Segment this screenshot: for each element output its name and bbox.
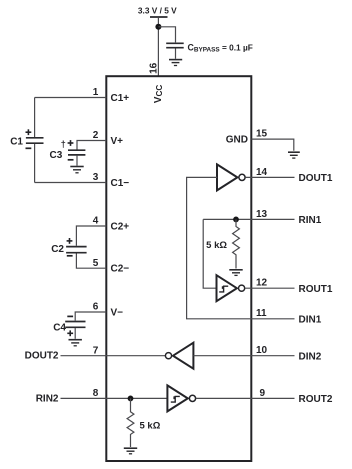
capacitor C4 (pin6 V- to ground) <box>65 322 85 339</box>
svg-text:C1+: C1+ <box>111 93 130 104</box>
wire U2 output to pin 12 ROUT1 <box>245 287 295 289</box>
pin 2 number <box>93 130 99 141</box>
ground (R1) <box>229 270 242 276</box>
driver T2 (DIN2 to DOUT2) <box>165 343 193 369</box>
svg-text:†: † <box>61 139 66 149</box>
pin 12 number <box>256 278 268 289</box>
C4 label <box>53 323 66 334</box>
C2 plus polarity <box>67 238 73 244</box>
junction dot on pin 13 wire <box>233 217 239 223</box>
pin name C1+ <box>111 93 130 104</box>
C3 label with dagger footnote <box>50 139 66 161</box>
svg-text:16: 16 <box>148 62 159 74</box>
svg-text:DIN2: DIN2 <box>299 351 322 362</box>
svg-text:5 kΩ: 5 kΩ <box>206 240 227 251</box>
svg-text:GND: GND <box>226 135 248 146</box>
wire T1 input from DIN1 (pin 11) <box>187 177 295 318</box>
pin 5 wire C2- <box>76 253 106 268</box>
svg-text:C3: C3 <box>50 150 63 161</box>
node DOUT1 label <box>299 173 333 184</box>
receiver U2 (RIN1 to ROUT1) <box>217 275 245 301</box>
svg-text:DIN1: DIN1 <box>299 315 322 326</box>
driver T1 (DIN1 to DOUT1) <box>217 164 245 190</box>
svg-text:15: 15 <box>256 129 268 140</box>
pin name V- <box>111 308 124 319</box>
svg-text:11: 11 <box>256 308 267 319</box>
R1 value label 5 kOhm <box>206 240 227 251</box>
svg-text:DOUT1: DOUT1 <box>299 173 333 184</box>
svg-text:C2−: C2− <box>111 264 130 275</box>
pin 7 wire DOUT2 <box>61 355 166 357</box>
svg-text:VCC: VCC <box>153 85 164 104</box>
svg-text:3.3 V / 5 V: 3.3 V / 5 V <box>138 5 177 15</box>
capacitor C2 (pin4 to pin5) <box>66 247 87 253</box>
svg-text:7: 7 <box>93 345 99 356</box>
svg-text:5 kΩ: 5 kΩ <box>140 421 161 432</box>
svg-text:ROUT2: ROUT2 <box>299 394 333 405</box>
pin name V+ <box>111 136 124 147</box>
pin 5 number <box>93 258 99 269</box>
pin 4 wire C2+ <box>76 226 106 246</box>
pin name VCC <box>153 85 164 104</box>
junction dot on pin 8 wire <box>128 396 134 402</box>
node VCC supply label 3.3 V / 5 V <box>138 5 177 15</box>
receiver U3 (RIN2 to ROUT2) <box>167 385 195 411</box>
svg-text:C2+: C2+ <box>111 222 130 233</box>
wire T2 input from pin 10 DIN2 <box>193 355 294 357</box>
C1 label <box>10 137 23 148</box>
C1 plus polarity <box>26 129 32 135</box>
C4 minus polarity (top) <box>67 315 73 317</box>
pin 6 number <box>93 302 99 313</box>
ground (bypass capacitor) <box>169 60 182 66</box>
pin 11 number <box>256 308 267 319</box>
pin 13 wire RIN1 <box>203 218 294 220</box>
svg-text:3: 3 <box>93 172 99 183</box>
svg-text:RIN2: RIN2 <box>36 394 59 405</box>
svg-text:1: 1 <box>93 87 99 98</box>
C1 minus polarity <box>26 147 32 149</box>
pin 3 number <box>93 172 99 183</box>
wire T1 output to pin 14 and DOUT1 <box>245 176 294 178</box>
wire junction to bypass capacitor <box>158 27 175 43</box>
power rail bar <box>150 16 168 18</box>
IC U1 body <box>106 76 251 461</box>
C3 plus polarity <box>68 140 74 146</box>
pin 10 number <box>256 345 268 356</box>
pin 9 number <box>260 388 266 399</box>
svg-text:10: 10 <box>256 345 268 356</box>
pin name C1- <box>111 178 130 189</box>
pin 8 wire RIN2 <box>61 397 168 399</box>
node RIN2 label <box>36 394 59 405</box>
pin 8 number <box>93 388 99 399</box>
node DOUT2 label <box>25 350 59 361</box>
svg-text:RIN1: RIN1 <box>299 215 322 226</box>
ground (pin 15) <box>288 152 300 158</box>
junction dot on VCC wire <box>155 24 161 30</box>
svg-text:C4: C4 <box>53 323 66 334</box>
pin 4 number <box>93 216 99 227</box>
pin 16 number label <box>148 62 159 74</box>
svg-text:4: 4 <box>93 216 99 227</box>
pin 14 number <box>256 167 268 178</box>
svg-text:9: 9 <box>260 388 266 399</box>
pin 15 number <box>256 129 268 140</box>
C3 minus polarity <box>68 159 74 161</box>
value label CBYPASS = 0.1 uF <box>188 42 253 53</box>
wire VCC rail to pin 16 <box>157 18 159 76</box>
svg-text:13: 13 <box>256 209 268 220</box>
resistor R1 5 kOhm <box>233 219 240 268</box>
node RIN1 label <box>299 215 322 226</box>
svg-text:8: 8 <box>93 388 99 399</box>
C2 minus polarity <box>67 255 73 257</box>
svg-text:12: 12 <box>256 278 268 289</box>
node ROUT1 label <box>299 284 333 295</box>
pin 13 number <box>256 209 268 220</box>
pin name C2+ <box>111 222 130 233</box>
R2 value label 5 kOhm <box>140 421 161 432</box>
svg-text:C1: C1 <box>10 137 23 148</box>
svg-text:ROUT1: ROUT1 <box>299 284 333 295</box>
pin name C2- <box>111 264 130 275</box>
wire U3 output to pin 9 ROUT2 <box>196 397 295 399</box>
hysteresis symbol (U3) <box>171 396 180 402</box>
resistor R2 5 kOhm <box>127 398 134 447</box>
ground (C4) <box>69 340 82 346</box>
svg-text:6: 6 <box>93 302 99 313</box>
pin 15 wire GND <box>251 139 293 151</box>
C4 plus polarity (bottom) <box>67 330 73 336</box>
pin 3 wire C1- <box>35 182 107 184</box>
node ROUT2 label <box>299 394 333 405</box>
pin 2 wire V+ <box>77 141 106 150</box>
ground (C3) <box>70 167 83 173</box>
pin 1 wire C1+ <box>35 97 107 99</box>
capacitor C3 (pin2 V+ to ground) <box>68 150 85 166</box>
svg-text:2: 2 <box>93 130 99 141</box>
node DIN2 label <box>299 351 322 362</box>
hysteresis symbol (U2) <box>219 286 228 292</box>
C2 label <box>51 244 64 255</box>
svg-text:C1−: C1− <box>111 178 130 189</box>
pin name GND <box>226 135 248 146</box>
capacitor C1 (pin1 to pin3) <box>26 98 44 183</box>
pin 1 number <box>93 87 99 98</box>
pin 7 number <box>93 345 99 356</box>
svg-text:DOUT2: DOUT2 <box>25 350 59 361</box>
svg-text:V−: V− <box>111 308 124 319</box>
svg-text:V+: V+ <box>111 136 124 147</box>
node DIN1 label <box>299 315 322 326</box>
ground (R2) <box>124 448 137 454</box>
svg-text:5: 5 <box>93 258 99 269</box>
svg-text:14: 14 <box>256 167 268 178</box>
svg-text:C2: C2 <box>51 244 64 255</box>
wire RIN1 to receiver R1 input <box>203 219 216 288</box>
pin 6 wire V- <box>75 312 106 321</box>
capacitor CBYPASS <box>166 43 184 59</box>
